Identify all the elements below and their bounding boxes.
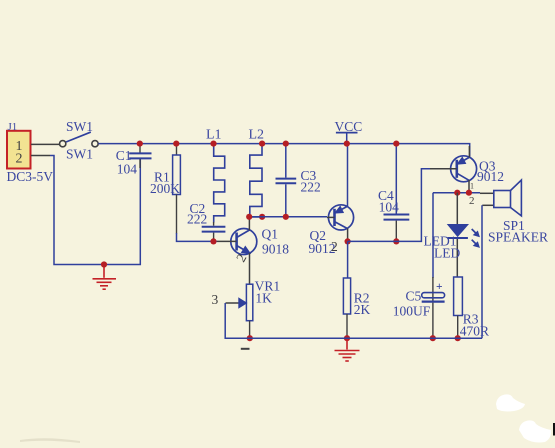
resistor R2 [343,241,370,338]
svg-text:SW1: SW1 [66,119,93,134]
svg-text:2K: 2K [354,302,371,317]
svg-text:L1: L1 [206,128,222,143]
svg-text:C5: C5 [406,288,422,303]
wire pin2 down to ground run [50,156,140,265]
LED1 [424,193,480,277]
resistor R1 [150,144,180,234]
scan artifacts [20,394,555,443]
transistor Q1 9018 [217,217,289,284]
svg-text:9012: 9012 [477,169,504,184]
svg-text:+: + [436,281,443,293]
svg-text:200K: 200K [150,181,180,196]
svg-text:Q1: Q1 [262,226,279,241]
potentiometer VR1 [212,279,281,349]
J1 pin 2 wire [31,155,50,157]
svg-text:2: 2 [331,239,338,254]
wire: R1 bottom to base row [177,233,218,241]
wire: Q3 collector node row [433,192,480,194]
speaker SP1 [480,180,548,338]
node: C2 bottom / Q1 base [210,238,216,244]
capacitor C3 [276,144,321,217]
node: Q3 collector / speaker [466,190,472,196]
node: VR1 bottom [247,335,253,341]
wire: top rail VCC [98,144,469,157]
capacitor C4 [378,144,409,242]
connector J1 [7,121,54,184]
svg-text:1: 1 [470,182,474,191]
ground (left) [93,265,117,289]
node: L2 top [259,141,265,147]
svg-text:100UF: 100UF [393,303,431,318]
capacitor C2 [187,201,225,241]
svg-text:SPEAKER: SPEAKER [488,229,548,244]
transistor Q2 9012 [309,144,354,256]
node: Q2 collector [345,238,351,244]
svg-text:104: 104 [379,200,400,215]
node: pin2/ground junction [101,261,107,267]
svg-text:470R: 470R [460,324,489,339]
svg-text:SW1: SW1 [66,146,93,161]
wire: bottom rail [225,303,482,338]
wire: collector row y217 [249,216,327,218]
node: R1 top [173,141,179,147]
svg-text:2: 2 [469,195,475,207]
node: VCC / Q2 emitter [344,141,350,147]
svg-text:222: 222 [301,180,321,195]
svg-text:J1: J1 [8,121,18,133]
resistor R3 [454,277,489,339]
svg-text:104: 104 [117,162,138,177]
svg-text:L2: L2 [249,128,265,143]
wire: Q2 collector row to Q3 base [348,169,430,242]
svg-text:LED: LED [434,246,460,261]
node: R2 bottom [344,335,350,341]
node: L2 bottom [259,214,265,220]
switch SW1 [60,119,99,161]
inductor L1 [206,128,225,223]
node: R3 bottom [455,335,461,341]
svg-text:222: 222 [187,212,207,227]
svg-text:3: 3 [212,292,219,307]
node: C3 bottom [283,214,289,220]
node: C3 top [283,141,289,147]
inductor L2 [249,128,265,217]
node: L1 top [210,141,216,147]
transistor Q3 9012 [430,146,504,207]
node: C4 bottom [393,238,399,244]
node: C5 bottom [430,335,436,341]
svg-text:9018: 9018 [262,242,289,257]
svg-text:1K: 1K [255,291,272,306]
node: Q1 collector [246,214,252,220]
node: LED tap [454,190,460,196]
node: C4 top [393,141,399,147]
svg-text:DC3-5V: DC3-5V [7,169,54,184]
power port VCC [335,119,363,144]
capacitor C5 100UF [393,277,445,338]
svg-text:2: 2 [16,151,23,166]
wire: C5 branch [432,193,434,278]
ground (center) [335,338,360,361]
node: C1 top [137,141,143,147]
capacitor C1 [116,144,152,177]
J1 pin 1 wire to SW1 [31,143,59,145]
